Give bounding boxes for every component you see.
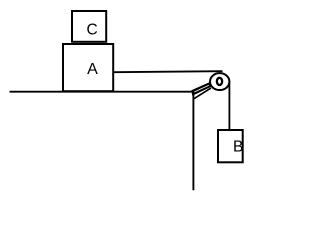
string from pulley down to block B xyxy=(228,83,230,130)
pulley outer wheel xyxy=(210,73,229,90)
string from block A to pulley xyxy=(113,71,222,72)
table surface line xyxy=(10,91,194,93)
block B xyxy=(218,130,243,162)
pulley bracket wedge at table corner xyxy=(191,82,211,99)
svg-text:B: B xyxy=(233,139,243,156)
block C xyxy=(72,11,106,42)
table right edge vertical xyxy=(192,91,194,190)
svg-text:A: A xyxy=(87,61,98,78)
block A xyxy=(63,44,113,91)
pulley hub O xyxy=(217,78,222,85)
svg-text:C: C xyxy=(86,22,97,39)
